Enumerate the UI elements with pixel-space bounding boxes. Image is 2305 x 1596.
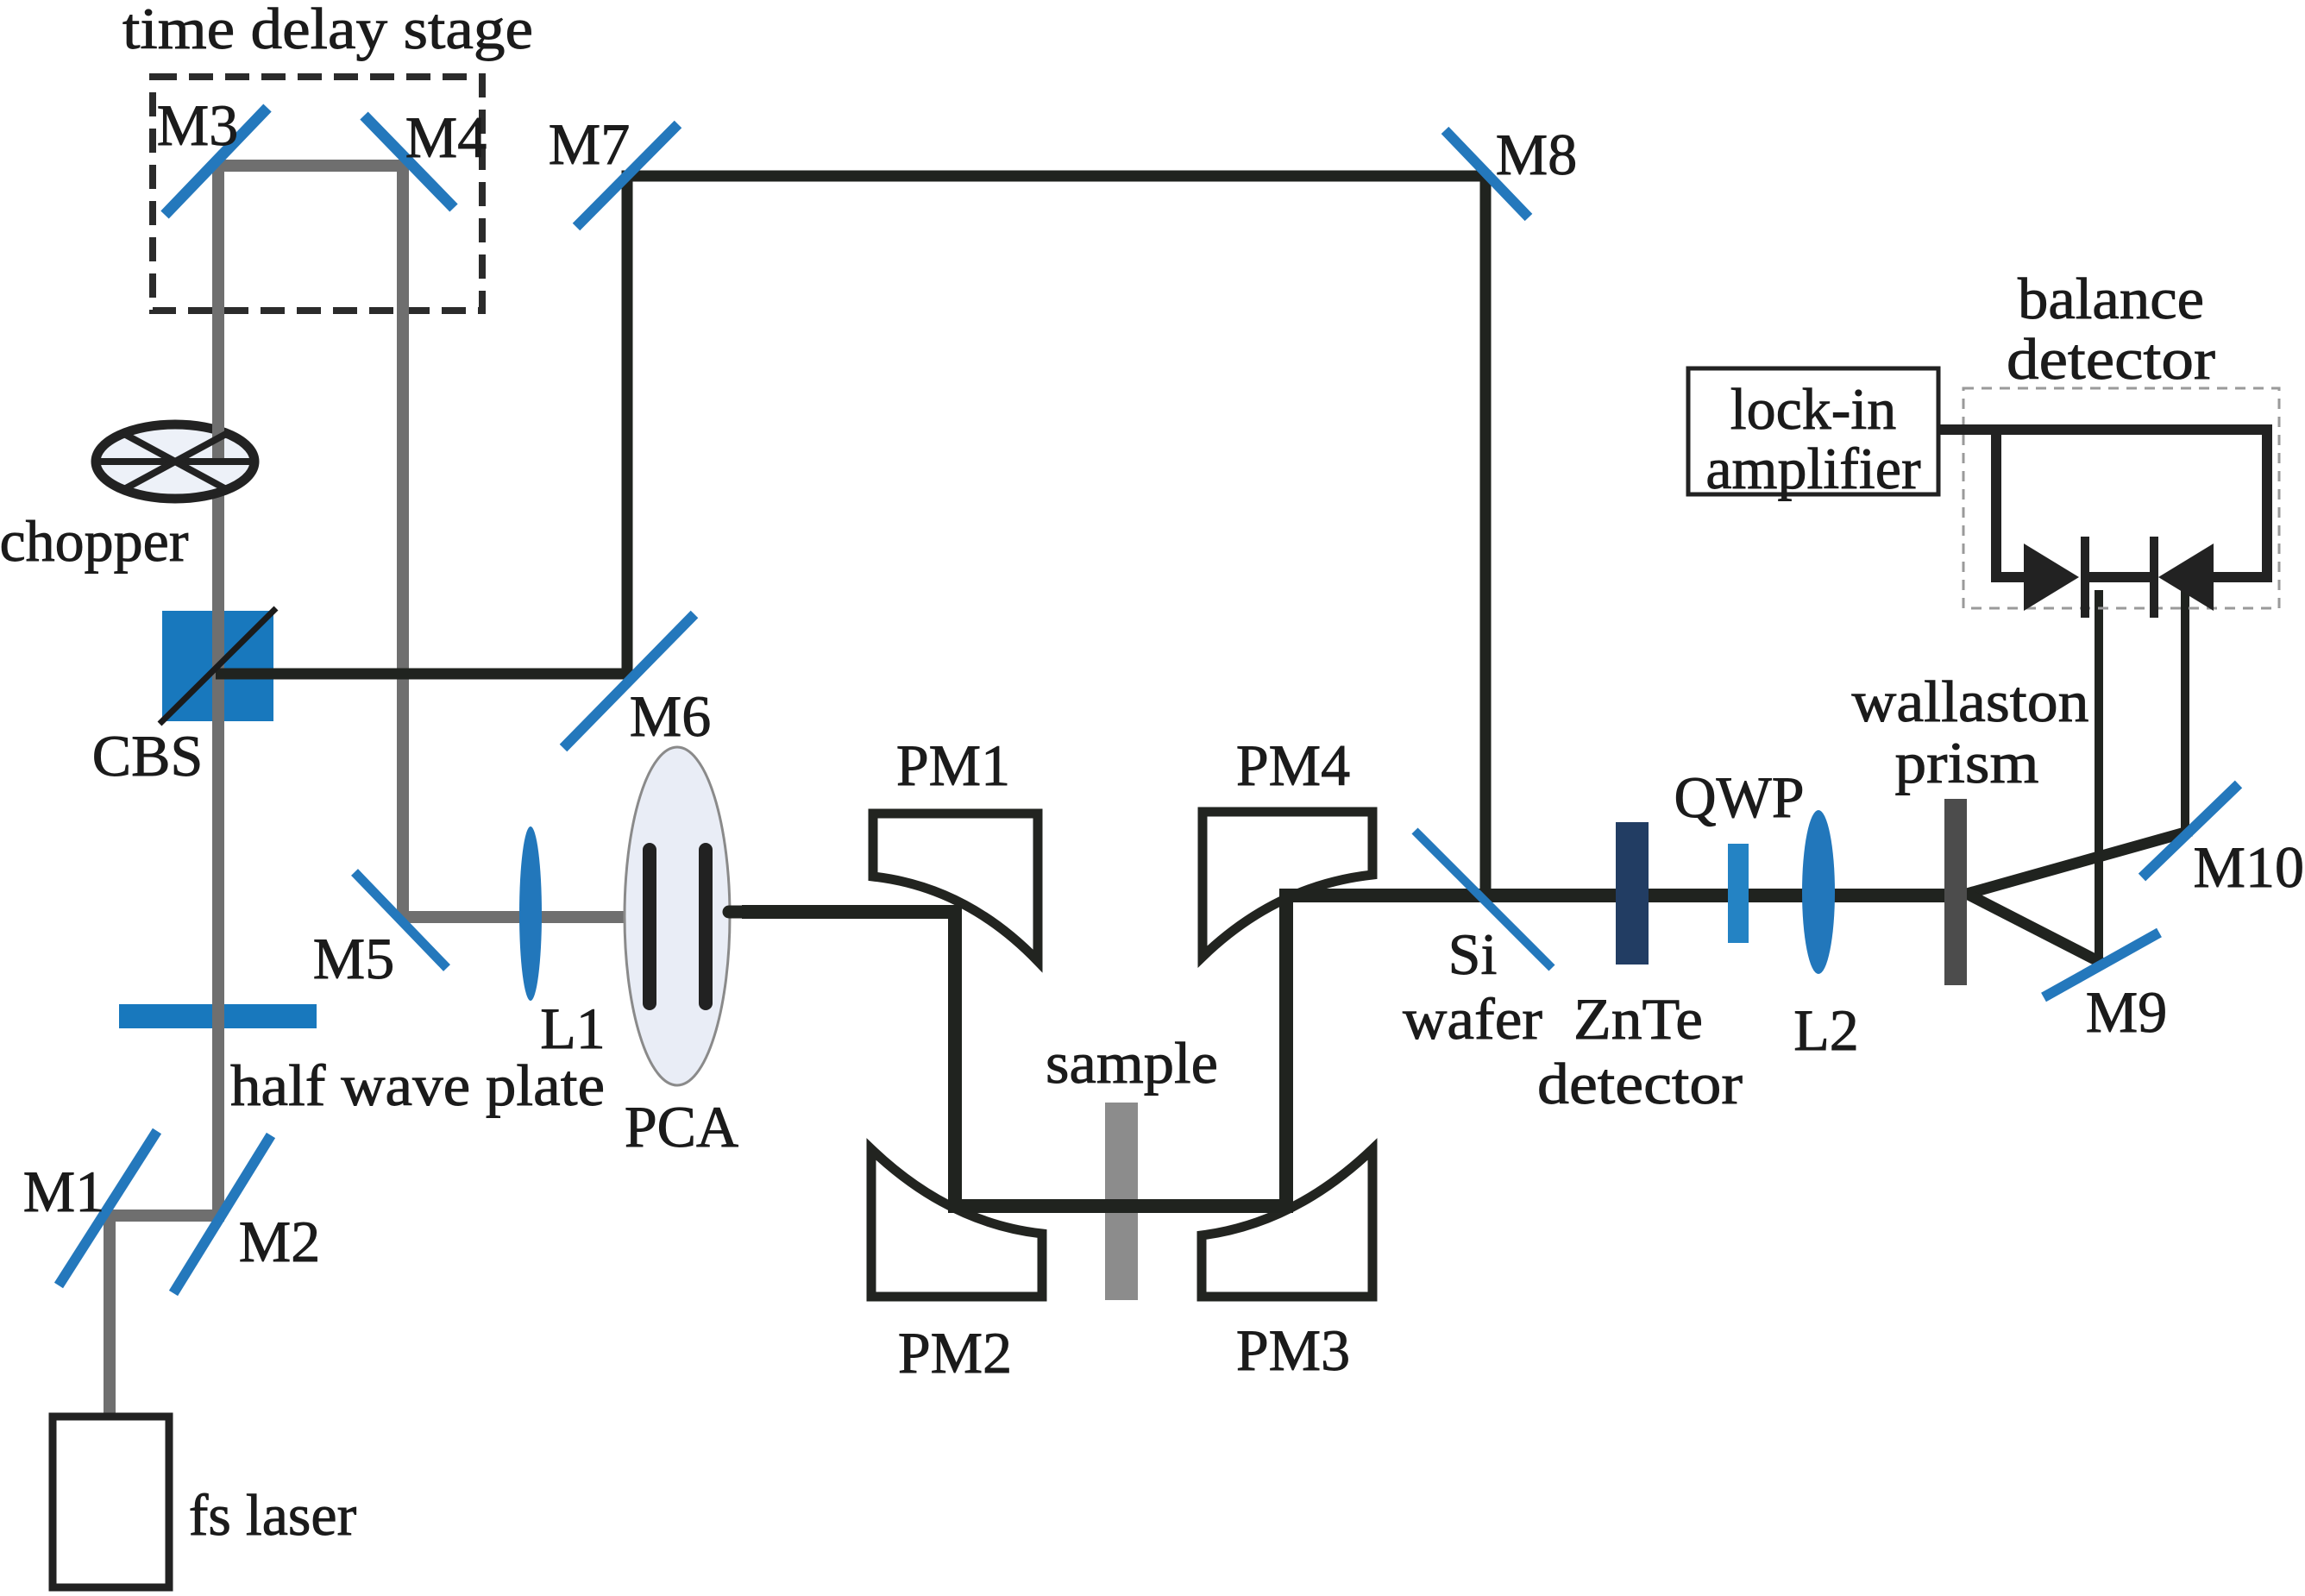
wire: diode row middle segment [2082,572,2157,582]
svg-text:PM4: PM4 [1236,732,1350,798]
svg-text:fs laser: fs laser [189,1482,357,1548]
photodiode right cathode bar [2150,537,2158,618]
svg-text:ZnTe: ZnTe [1573,986,1703,1052]
ZnTe detector crystal [1616,822,1649,965]
CBS cube beamsplitter [162,611,273,721]
wire: M9 beam up to balance detector diode [2095,590,2103,965]
svg-text:M6: M6 [630,683,711,749]
wallaston prism [1944,799,1967,985]
photodiode right [2158,544,2214,611]
PCA electrode left [643,850,656,1003]
chopper [96,404,254,499]
mirror M9 [2044,933,2159,997]
mirror M8 [1445,130,1529,217]
mirror M1 [59,1131,157,1285]
svg-text:wallaston: wallaston [1852,669,2089,734]
PCA ellipse [625,747,730,1085]
wire: diode row left segment [1991,572,2026,582]
svg-text:M4: M4 [405,104,487,170]
svg-text:balance: balance [2018,266,2204,331]
parabolic mirror PM1 [873,814,1038,961]
svg-text:M1: M1 [23,1159,104,1224]
svg-text:M8: M8 [1496,122,1577,187]
svg-text:PM1: PM1 [896,732,1010,798]
svg-text:M2: M2 [239,1209,320,1274]
wire: left branch down [1991,424,2001,577]
parabolic mirror PM3 [1202,1149,1372,1297]
svg-text:M10: M10 [2194,834,2304,900]
svg-text:L1: L1 [540,996,606,1061]
wire: right branch down [2262,424,2272,577]
svg-text:detector: detector [1537,1051,1743,1116]
wire: prism split beam to M9 [1967,894,2101,963]
wire: lock-in amplifier to balance detector [1938,424,2267,435]
svg-text:half wave plate: half wave plate [230,1052,605,1118]
svg-text:lock-in: lock-in [1730,376,1897,442]
mirror M5 [355,872,447,968]
wire: probe beam CBS to M6 to M7 to M8 to Si wafer [216,176,1485,895]
svg-text:M3: M3 [157,92,238,158]
wire: THz beam PCA to PM1 to PM2 to sample to PM3 to PM4 to prism [742,895,1951,1206]
mirror M4 [364,116,454,208]
svg-text:amplifier: amplifier [1705,436,1921,501]
svg-text:PM3: PM3 [1236,1317,1350,1383]
Si wafer [1415,831,1552,968]
svg-text:PCA: PCA [625,1094,738,1159]
mirror M7 [576,124,678,227]
svg-text:time delay stage: time delay stage [122,0,533,61]
wire: THz beam PCA start [729,906,863,919]
wire: diode row right segment [2212,572,2272,582]
svg-text:M9: M9 [2086,979,2167,1045]
photodiode left cathode bar [2081,537,2089,618]
CBS diagonal line [160,608,276,724]
svg-text:detector: detector [2007,326,2215,392]
lock-in amplifier box [1688,368,1938,494]
svg-text:chopper: chopper [0,508,189,574]
svg-text:wafer: wafer [1403,986,1542,1052]
wire: M10 beam up to balance detector diode [2181,590,2189,835]
mirror M10 [2142,784,2239,877]
mirror M2 [173,1135,271,1293]
mirror M3 [165,108,267,215]
lens L2 [1802,810,1835,974]
parabolic mirror PM2 [871,1149,1042,1297]
balance detector dashed box [1963,388,2279,608]
svg-text:CBS: CBS [92,723,204,789]
QWP quarter wave plate [1728,844,1749,943]
svg-text:PM2: PM2 [898,1320,1012,1386]
half wave plate [119,1004,317,1028]
mirror M6 [563,614,694,748]
fs laser box [53,1417,169,1587]
svg-text:M7: M7 [549,111,630,177]
wire: pump beam path (fs laser to M1, M2, CBS, M3, M4, M5, PCA) [110,166,649,1420]
time delay stage dashed box [153,77,482,311]
sample bar [1105,1103,1138,1300]
svg-text:M5: M5 [313,926,394,991]
svg-text:QWP: QWP [1674,764,1804,830]
svg-text:Si: Si [1448,921,1498,987]
parabolic mirror PM4 [1203,812,1372,957]
svg-text:prism: prism [1895,730,2039,795]
photodiode left [2024,544,2079,611]
svg-text:sample: sample [1046,1030,1218,1096]
svg-text:L2: L2 [1793,997,1859,1063]
wire: prism split beam to M10 [1967,831,2191,894]
lens L1 [519,826,542,1001]
PCA electrode right [699,850,713,1003]
